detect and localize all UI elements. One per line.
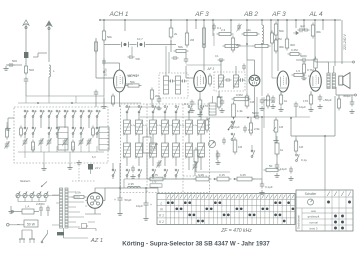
svg-text:50k: 50k [107, 35, 112, 39]
wire IF top leads [220, 60, 222, 75]
svg-text:K 2: K 2 [159, 220, 164, 224]
wire bus drop 2 [124, 20, 126, 31]
wire pre-box rail 1 [26, 95, 104, 97]
wire detector row right [261, 116, 311, 118]
mains plug left [21, 233, 23, 239]
capacitor mains filter a [39, 207, 43, 209]
switch/coil column K1 box1 [24, 116, 26, 118]
svg-text:L: L [161, 201, 163, 205]
svg-text:2,5k: 2,5k [254, 127, 260, 131]
capacitor AB2 feed [242, 65, 246, 67]
switch tone b [231, 139, 233, 141]
svg-text:0,1µ: 0,1µ [301, 158, 307, 162]
tube AL4 envelope [310, 71, 322, 91]
wire transformer primary top [316, 61, 329, 63]
svg-text:0,35: 0,35 [198, 173, 204, 177]
resistor box1 left edge [6, 129, 9, 137]
band chain 3 bottom contact [152, 175, 154, 177]
node divider a [214, 178, 216, 180]
wire AZ1 bottom frame [94, 208, 96, 214]
resistor box1 c [32, 142, 35, 150]
svg-text:2k: 2k [174, 32, 178, 36]
resistor top mid d [244, 32, 257, 35]
resistor detector load horizontal [234, 97, 248, 100]
svg-text:0,1: 0,1 [184, 102, 189, 106]
svg-text:0,1: 0,1 [217, 26, 222, 30]
resistor box1 d [72, 142, 75, 150]
variable capacitor box1 f [87, 140, 92, 142]
svg-text:500: 500 [29, 68, 34, 72]
capacitor electrolytic 1 [119, 188, 121, 198]
wire AL4 anode [315, 69, 317, 71]
capacitor mains [289, 168, 293, 170]
band filter box 2 (dashed) [121, 104, 210, 193]
IF trimmer primary [226, 78, 228, 82]
wire detector drops [256, 97, 258, 117]
wire bus drop 3 [170, 20, 172, 27]
svg-text:AZ 1: AZ 1 [90, 238, 103, 244]
ground electrolytic 1 [119, 203, 121, 212]
resistor AVC lower [249, 123, 252, 133]
svg-text:5000: 5000 [300, 54, 307, 58]
resistor feedback [266, 168, 278, 171]
resistor bias divider [294, 141, 297, 151]
wire osc bottom [125, 106, 160, 108]
trimmer top mid [237, 25, 241, 27]
resistor surge [74, 196, 84, 199]
svg-text:20k: 20k [155, 94, 160, 98]
resistor AF3-1 cathode [198, 100, 202, 109]
variable capacitor box1 e [79, 140, 84, 142]
capacitor coupling AL4 [302, 58, 304, 63]
dial lamp 1 [16, 193, 20, 197]
svg-text:0,1µ: 0,1µ [169, 125, 174, 127]
transformer mains winding [60, 188, 63, 228]
svg-text:6,3: 6,3 [92, 155, 96, 159]
resistor AF3-1 grid stopper [176, 50, 186, 53]
variable capacitor comp2 [157, 162, 162, 164]
capacitor tone [294, 103, 299, 105]
wire AZ1 lower rail [78, 228, 96, 230]
capacitor antenna blocking (black) [24, 52, 28, 58]
trimmer oscillator primary [170, 80, 172, 83]
svg-text:+: + [150, 203, 152, 207]
ground antenna input [6, 64, 22, 66]
svg-text:~: ~ [17, 222, 20, 227]
dial lamp 3 [30, 193, 34, 197]
node top mid junction a [246, 43, 248, 45]
tube ACH1 envelope [114, 70, 126, 92]
svg-text:gedämpft: gedämpft [308, 214, 320, 218]
band filter box partition 1 (dashed) [146, 104, 148, 193]
capacitor antenna shunt [24, 78, 29, 80]
resistor rail lower [150, 184, 162, 187]
svg-text:20 005: 20 005 [105, 68, 108, 76]
resistor AVC 1 [245, 96, 249, 106]
resistor bleeder box [143, 137, 151, 153]
band chain 5 upper coil [175, 111, 177, 113]
svg-text:1M: 1M [250, 100, 255, 104]
resistor top far right [311, 25, 314, 36]
svg-text:AuF 4654: AuF 4654 [127, 74, 140, 78]
svg-text:normal: normal [309, 220, 318, 224]
wire lamp bus [16, 195, 60, 197]
wire bus drop 12 [286, 20, 288, 38]
wire top mid row [241, 45, 254, 47]
svg-text:10µF: 10µF [136, 204, 143, 208]
svg-text:20k: 20k [236, 43, 241, 47]
switch/coil column K10 box1 [96, 116, 98, 118]
band chain 5 lower coil [173, 143, 180, 157]
band chain 4 lower coil [162, 143, 169, 157]
switch/coil column K3 box1 [40, 116, 42, 118]
wire right L-run up [334, 96, 336, 136]
capacitor mid small b [243, 127, 247, 129]
switch/coil column K4 box1 [48, 116, 50, 118]
antenna 2 arrow [48, 25, 50, 62]
band chain 1 lower coil [124, 143, 131, 157]
resistor box1 a [20, 128, 23, 135]
svg-text:175: 175 [152, 180, 157, 184]
wire right L-run horizontal [291, 135, 335, 137]
svg-text:50k: 50k [130, 80, 135, 84]
resistor AL4 anode [314, 59, 317, 68]
resistor comp3 edge [206, 120, 209, 130]
wire detector row [205, 116, 256, 118]
switch/coil column K7 box1 [72, 116, 74, 118]
wire mid join [216, 150, 218, 160]
wire bus drop 14 [303, 20, 305, 30]
power box 50W [24, 220, 38, 227]
wire bus drop 17 [334, 20, 336, 66]
resistor thermo [203, 28, 206, 44]
table switch row lines [296, 207, 353, 209]
resistor osc bias [150, 90, 153, 99]
dial lamp 5 [44, 193, 48, 197]
capacitor under meter [216, 153, 221, 155]
resistor AL4 grid leak [302, 64, 305, 73]
capacitor electrolytic 2 [145, 188, 147, 203]
svg-text:0,4: 0,4 [199, 155, 204, 159]
table band-switch row lines [157, 199, 295, 201]
wire bus drop 16 [322, 20, 324, 30]
resistor top right a [285, 39, 288, 48]
wire bus drop 13 [295, 20, 297, 28]
band chain 2 upper coil [138, 111, 140, 113]
wire mid horizontal [196, 171, 230, 173]
transformer tap 8 [68, 226, 80, 228]
svg-text:aus: aus [311, 209, 316, 213]
capacitor AF3-1 grid [184, 58, 189, 60]
resistor diode load [217, 97, 221, 107]
resistor filter 1,75 [150, 177, 163, 181]
resistor volume pot [274, 120, 278, 132]
wire osc box feeds [165, 46, 167, 76]
switch/coil column K8 box1 [80, 116, 82, 118]
table band-switch frame [157, 194, 295, 225]
svg-text:20µF: 20µF [264, 98, 271, 102]
svg-text:10,7: 10,7 [137, 37, 143, 41]
svg-text:50: 50 [269, 164, 273, 168]
fuse box 1A [22, 209, 34, 214]
diode tone arrow [293, 31, 298, 34]
svg-text:1M: 1M [299, 145, 304, 149]
ground below box1 b [69, 163, 71, 165]
svg-text:0,15: 0,15 [219, 173, 225, 177]
svg-text:5000: 5000 [252, 111, 259, 115]
resistor screen ACH1 [102, 31, 105, 40]
node divider b [234, 178, 236, 180]
switch/coil column K5 box1 [56, 116, 58, 118]
table switch vertical label strip [301, 208, 303, 231]
resistor top mid a [231, 38, 234, 50]
svg-text:ZF = 470 kHz: ZF = 470 kHz [220, 228, 252, 234]
band chain 2 bottom contact [138, 175, 140, 177]
svg-text:1k: 1k [284, 99, 288, 103]
svg-text:Drucktasten: Drucktasten [297, 214, 301, 228]
wire bleeder to rail [147, 178, 150, 180]
wire bus drop 9 [261, 20, 263, 25]
capacitor top mid [212, 25, 216, 27]
svg-text:1,3k: 1,3k [237, 109, 243, 113]
svg-text:Schalter: Schalter [305, 192, 318, 196]
wire transformer top [328, 66, 330, 73]
svg-text:50k: 50k [178, 45, 183, 49]
wire HT rail [105, 187, 158, 189]
svg-text:0,5A: 0,5A [75, 191, 81, 195]
wire plugs to box [21, 230, 23, 233]
wire bus drop 10 [270, 20, 272, 33]
svg-text:500: 500 [136, 57, 141, 61]
svg-text:50µF: 50µF [125, 198, 132, 202]
linkage dashes vertical [78, 165, 80, 181]
ground field [276, 173, 278, 176]
switch/coil column K6 box1 [64, 116, 66, 118]
wire box1 bottom rail [18, 151, 104, 153]
coil antenna 2 [49, 65, 51, 77]
wire box1 drops to edge [43, 152, 45, 163]
coil top mid [262, 25, 264, 44]
node top mid junction b [261, 43, 263, 45]
svg-text:24 V: 24 V [95, 166, 101, 170]
capacitor mains filter b [46, 207, 50, 209]
band filter box partition 2 (dashed) [182, 104, 184, 193]
wire AVC drop [261, 117, 263, 179]
svg-text:+50µF: +50µF [323, 98, 332, 102]
band chain 4 upper coil [164, 111, 166, 113]
capacitor trimmer right [137, 42, 139, 47]
svg-text:2x5000: 2x5000 [36, 202, 45, 206]
wire right L-run vertical [290, 118, 292, 136]
coil IF output [209, 103, 216, 115]
wire lamp bus lower [18, 201, 46, 203]
table band-switch header ticks [167, 195, 169, 199]
resistor AF3-2 anode load a [274, 24, 277, 35]
svg-text:0,1: 0,1 [248, 128, 253, 132]
speaker magnet [339, 76, 343, 85]
capacitor bottom a [131, 167, 135, 169]
band chain 1 bottom contact [126, 175, 128, 177]
ground divider [261, 190, 263, 193]
wire trimmer row [104, 44, 121, 46]
band filter box3 bottom (dashed) [183, 175, 210, 177]
band chain 3 lower coil [150, 143, 157, 157]
variable capacitor box1 c [47, 140, 52, 142]
resistor AF3-1 screen [185, 33, 188, 45]
svg-text:2,35: 2,35 [128, 182, 134, 186]
table band-switch label column [165, 194, 167, 225]
variable capacitor comp3 [193, 164, 198, 166]
wire AZ1 top feed [94, 188, 96, 193]
wire bus drop 4 [195, 20, 197, 29]
wire HT rail upper [124, 178, 196, 180]
wire mid bus [140, 116, 205, 118]
resistor top mid f [255, 44, 268, 47]
variable capacitor box1 b [39, 140, 44, 142]
resistor detector lower [232, 104, 236, 117]
svg-text:0,1µ: 0,1µ [143, 125, 148, 127]
wire right table feed [324, 136, 326, 190]
wire ACH1 to osc [126, 83, 134, 85]
svg-text:0,25: 0,25 [240, 173, 246, 177]
svg-text:1,75: 1,75 [152, 173, 158, 177]
resistor AL4 cathode [309, 95, 312, 104]
transformer tap 7 [68, 221, 76, 223]
ground below box1 [43, 163, 45, 166]
capacitor top right [299, 28, 301, 33]
switch detector [229, 121, 236, 130]
speaker cone [343, 73, 350, 89]
resistor box1 b [92, 128, 95, 135]
wire bleeder down [146, 160, 148, 179]
variable capacitor box1 left edge [5, 143, 10, 145]
svg-text:Körting - Supra-Selector 38 SB: Körting - Supra-Selector 38 SB 4347 W - … [122, 241, 270, 248]
IF coil primary [219, 75, 224, 87]
svg-text:0,5M: 0,5M [236, 93, 243, 97]
capacitor AF3-1 grid lower [173, 56, 175, 60]
capacitor screen bypass [102, 60, 106, 62]
switch below box1 [112, 175, 114, 177]
wire AF3-1 grid [186, 77, 194, 79]
resistor AF3-2 cathode [279, 95, 282, 104]
wire top B+ bus [100, 19, 341, 21]
ground AF3-1 cathode [199, 112, 201, 115]
wire bottom long bus [95, 187, 105, 189]
svg-text:2M: 2M [190, 38, 195, 42]
resistor top mid e [270, 33, 273, 43]
wire bus drop 6 [212, 20, 214, 36]
wire transformer bottom [63, 228, 65, 238]
svg-text:1 A: 1 A [25, 205, 29, 209]
transformer tap 4 [68, 206, 76, 208]
capacitor osc pad [157, 98, 162, 100]
pointer arrow lamps [41, 182, 47, 188]
svg-text:0,1: 0,1 [215, 54, 219, 58]
svg-text:AB 2: AB 2 [243, 11, 258, 18]
transformer tap 3 [68, 201, 84, 203]
svg-text:0,1µF: 0,1µF [265, 185, 273, 189]
resistor right of AF3-1 [209, 76, 212, 84]
transformer tap 2 [68, 196, 80, 198]
resistor divider 2 [217, 177, 229, 181]
transformer output primary [327, 73, 330, 89]
resistor divider 3 [237, 177, 252, 181]
wire ACH1 anode to bus drop [119, 63, 121, 70]
svg-text:K 1: K 1 [159, 214, 164, 218]
capacitor field [275, 164, 280, 166]
wire AZ1 output [103, 200, 105, 202]
node top bus left end [99, 19, 101, 21]
wire transformer left taps [52, 194, 60, 196]
ground AF3-2 cathode [280, 107, 282, 110]
oscillator coil box (dashed) [159, 73, 188, 98]
table switch frame [296, 190, 353, 231]
svg-text:AF 3: AF 3 [271, 11, 286, 18]
capacitor AVC [260, 99, 265, 101]
capacitor divider [260, 183, 265, 185]
dial lamp 2 [23, 193, 27, 197]
wire AL4 grid [308, 75, 310, 77]
band chain 7 upper coil [200, 111, 202, 113]
resistor R anode ACH1 [169, 28, 173, 37]
ground AL4 cathode [310, 107, 312, 110]
wire bus drop 11 [277, 20, 279, 60]
svg-text:Skalenl.: Skalenl. [20, 179, 31, 183]
ground power [10, 206, 12, 209]
svg-text:AF 3: AF 3 [207, 67, 215, 71]
resistor top right b [290, 53, 299, 56]
table switch col lines [324, 190, 326, 231]
wire bus drop 15 [314, 20, 316, 62]
svg-text:4µF: 4µF [300, 24, 305, 28]
wire ACH1 screen drop [103, 40, 105, 96]
coil L1 box1 [58, 127, 68, 150]
resistor tone pot [233, 140, 237, 152]
resistor AL4 grid series [294, 74, 303, 77]
wire left vertical feed [119, 163, 121, 188]
resistor cathode ACH1 [111, 96, 114, 104]
band chain 4 bottom contact [164, 175, 166, 177]
band chain 1 upper coil [126, 111, 128, 113]
linkage dashes horizontal [72, 180, 95, 182]
table switch dots [327, 201, 330, 204]
capacitor AF coupling [255, 115, 257, 120]
wire AF3-1 anode [203, 60, 205, 71]
tube AF3-2 envelope [277, 71, 289, 92]
band chain 2 lower coil [136, 143, 143, 157]
resistor field coil [275, 143, 279, 154]
capacitor AF3-1 bypass [190, 101, 195, 103]
svg-text:1M: 1M [279, 125, 284, 129]
trimmer oscillator secondary [182, 80, 184, 83]
table band-switch dots [167, 201, 170, 204]
svg-text:0,1µ: 0,1µ [180, 125, 185, 127]
capacitor mid small a [222, 139, 226, 141]
capacitor diode filter [220, 100, 225, 102]
wire bus drop 7 [230, 20, 232, 32]
wire ACH1 cathode down [119, 92, 121, 107]
band chain 5 bottom contact [175, 175, 177, 177]
svg-text:30k: 30k [316, 30, 321, 34]
wire mains vertical [341, 20, 343, 64]
transformer tap 6 [68, 216, 84, 218]
antenna 1 arrow [25, 24, 27, 52]
transformer tap 1 [68, 191, 76, 193]
table switch header ticks [327, 192, 330, 197]
switch AVC line [251, 156, 253, 158]
wire ACH1 grid left [96, 77, 114, 79]
svg-text:0,2M: 0,2M [275, 37, 282, 41]
